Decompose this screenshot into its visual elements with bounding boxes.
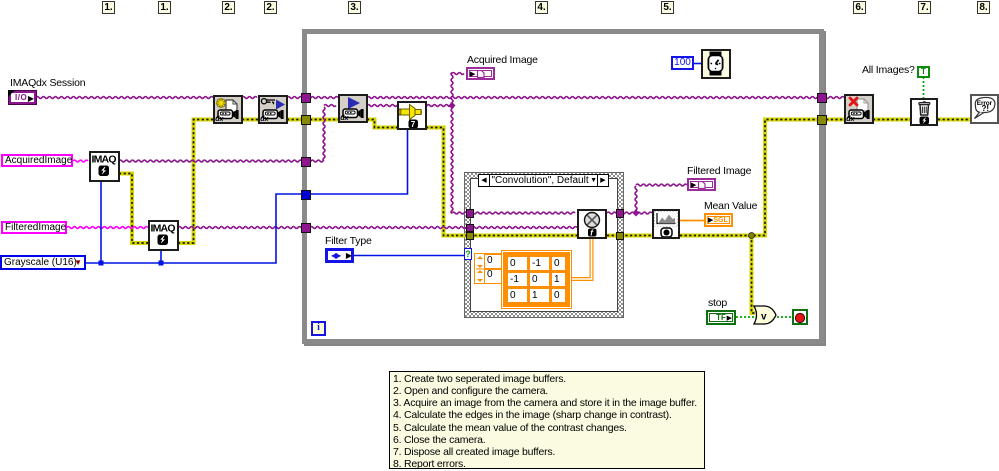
node: Wait (ms) timer bbox=[701, 49, 731, 79]
tunnel: error wire out of case bbox=[616, 232, 625, 241]
control: Filter Type enum bbox=[325, 248, 354, 263]
ring constant: Grayscale (U16) image type bbox=[0, 255, 86, 270]
step label 4. bbox=[535, 1, 548, 14]
label: stop bbox=[708, 297, 727, 309]
node: IMAQ Create (FilteredImage buffer) bbox=[148, 220, 179, 251]
wire: error wire: Configure Grab into loop to Grab bbox=[287, 118, 338, 122]
svg-text:dx: dx bbox=[846, 116, 855, 122]
while loop structure bbox=[302, 29, 824, 344]
tunnel: session wire into while loop bbox=[301, 93, 311, 103]
wire: kernel array to Convolute (orange double) bbox=[569, 239, 592, 280]
wire: error wire: mean node up and out of loop to Close Camera bbox=[680, 120, 844, 236]
tunnel: image out of case bbox=[616, 209, 625, 218]
junction: image wire branch at grab output bbox=[448, 102, 455, 109]
terminal: loop condition (stop sign) bbox=[792, 309, 808, 325]
kernel array constant 3x3 (0,-1,0 / -1,0,1 / 0,1,0) bbox=[503, 252, 570, 307]
label: Filtered Image bbox=[687, 165, 751, 177]
kernel array index scroller bbox=[474, 253, 502, 284]
label: Acquired Image bbox=[467, 54, 538, 66]
junction: error wire branch to Or gate bbox=[749, 233, 755, 239]
wire: boolean wire: Or gate to loop condition terminal bbox=[777, 316, 792, 318]
wire: image wire: junction into case to Convolute bbox=[452, 212, 575, 214]
label: Filter Type bbox=[325, 235, 372, 247]
tunnel: acquired image into case bbox=[466, 209, 475, 218]
wire: boolean wire: stop button to Or gate bbox=[736, 316, 755, 318]
wire: image wire: into Filtered Image indicator bbox=[636, 184, 687, 186]
control: stop button (TF boolean) bbox=[706, 310, 736, 325]
tunnel: FilteredImage wire into while loop bbox=[301, 223, 311, 233]
tunnel: U16 type wire into while loop bbox=[301, 190, 311, 200]
step label 8. bbox=[977, 1, 990, 14]
node: IMAQdx Configure Grab bbox=[258, 95, 288, 124]
step label 7. bbox=[918, 1, 931, 14]
wire: image wire: Grab image-out to junction bbox=[367, 105, 451, 107]
svg-text:IMAQ: IMAQ bbox=[151, 223, 176, 235]
wire: image wire: IMAQ Create 2 out into case to Convolute bbox=[178, 227, 577, 229]
wire: type wire: Grayscale (U16) to loop and EdgeDetection bbox=[86, 130, 408, 263]
constant: All Images? = True bbox=[917, 66, 930, 78]
step label 1. bbox=[102, 1, 115, 14]
step label 1. bbox=[158, 1, 171, 14]
node: IMAQ Create (AcquiredImage buffer) bbox=[89, 151, 120, 182]
wire: error wire: Dispose to Simple Error Handler bbox=[938, 118, 970, 122]
wire: error wire: EdgeDetection down into case to Convolute bbox=[426, 128, 577, 236]
node: IMAQ Convolute (apply kernel) bbox=[577, 209, 607, 239]
wire: boolean wire: All Images? constant to Dispose bbox=[923, 77, 925, 98]
wire: numeric wire: 100 to Wait (ms) bbox=[694, 63, 701, 65]
tunnel: filtered image into case bbox=[466, 224, 475, 233]
wire: error wire: IMAQ Create 1 to IMAQ Create 2 bbox=[119, 174, 149, 244]
step label 6. bbox=[853, 1, 866, 14]
label: IMAQdx Session bbox=[10, 77, 85, 89]
wire: image wire: riser up to Grab image-in bbox=[323, 107, 325, 161]
step label 2. bbox=[264, 1, 277, 14]
node: IMAQdx Close Camera bbox=[844, 94, 874, 124]
comment note: algorithm steps bbox=[389, 371, 705, 469]
wire: session wire: IMAQdx Session terminal to Open Camera bbox=[36, 97, 213, 99]
label: Mean Value bbox=[704, 200, 757, 212]
tunnel: error wire into case bbox=[466, 232, 475, 241]
wire: error wire: IMAQ Create 2 up to IMAQdx Open Camera bbox=[178, 120, 213, 244]
wire: error wire: branch down to Or gate bbox=[752, 236, 756, 314]
string constant: FilteredImage bbox=[1, 221, 67, 234]
tunnel: error wire into while loop bbox=[301, 115, 311, 125]
svg-text:v: v bbox=[761, 312, 767, 323]
wire: mean value SGL to Mean Value indicator bbox=[680, 220, 704, 222]
node: IMAQ mean value of contrast bbox=[652, 209, 680, 239]
control terminal: IMAQdx Session bbox=[8, 90, 37, 105]
svg-text:dx: dx bbox=[340, 115, 349, 121]
svg-text:dx: dx bbox=[215, 116, 224, 122]
indicator: Mean Value (SGL) bbox=[704, 213, 733, 227]
case selector "?" tunnel bbox=[464, 248, 472, 260]
tunnel: error wire out of while loop bbox=[817, 115, 827, 125]
junction: U16 type wire to IMAQ Create 2 bbox=[159, 261, 164, 266]
svg-text:?!: ?! bbox=[982, 104, 990, 113]
svg-text:IMAQ: IMAQ bbox=[92, 154, 117, 166]
wire: enum wire: Filter Type to case selector bbox=[354, 255, 464, 257]
numeric constant: 100 (ms wait) bbox=[671, 56, 694, 70]
label: All Images? bbox=[862, 64, 915, 76]
step label 2. bbox=[222, 1, 235, 14]
case structure ("Convolution", Default frame) bbox=[464, 172, 624, 318]
step label 5. bbox=[661, 1, 674, 14]
wire: image wire: into Grab image-in bbox=[324, 105, 336, 107]
wire: session wire: Open Camera to Configure Grab bbox=[242, 97, 257, 99]
svg-text:dx: dx bbox=[260, 116, 269, 122]
tunnel: AcquiredImage wire into while loop bbox=[301, 157, 311, 167]
junction: image wire branch to Filtered Image indicator bbox=[632, 209, 639, 216]
wire: error wire: Open Camera to Configure Grab bbox=[242, 118, 258, 122]
wire: error wire: Grab to EdgeDetection bbox=[367, 120, 397, 128]
svg-text:7: 7 bbox=[411, 120, 416, 128]
node: Simple Error Handler bbox=[970, 94, 999, 124]
junction: U16 type wire to IMAQ Create 1 bbox=[99, 261, 104, 266]
wire: string wire: AcquiredImage constant to IMAQ Create 1 bbox=[73, 160, 88, 162]
node: IMAQdx Grab (acquire image) bbox=[338, 94, 368, 123]
wire: type wire: branch up to IMAQ Create 2 bbox=[160, 250, 162, 263]
wire: error wire: case out to mean node bbox=[607, 234, 652, 238]
node: IMAQ EdgeDetection filter bbox=[397, 101, 427, 130]
node: IMAQ Dispose (all buffers) bbox=[910, 98, 938, 126]
wire: image wire: junction riser (indicator/case) bbox=[451, 73, 453, 214]
indicator: Acquired Image bbox=[466, 67, 495, 80]
wire: image wire: branch riser to Filtered Image indicator bbox=[635, 186, 637, 213]
wire: string wire: FilteredImage constant to IMAQ Create 2 bbox=[67, 227, 148, 229]
wire: type wire: branch up to IMAQ Create 1 bbox=[100, 182, 102, 263]
wire: image wire: into Acquired Image indicator bbox=[452, 73, 464, 75]
node: IMAQdx Open Camera bbox=[213, 95, 243, 124]
case selector label: "Convolution", Default bbox=[478, 174, 609, 187]
tunnel: session wire out of while loop bbox=[817, 93, 827, 103]
wire: session wire: Grab out of loop to Close Camera bbox=[367, 97, 844, 99]
step label 3. bbox=[348, 1, 361, 14]
string constant: AcquiredImage bbox=[1, 154, 73, 167]
wire: session wire: Configure Grab into loop to Grab bbox=[287, 97, 338, 99]
wire: error wire: Close Camera to Dispose bbox=[873, 118, 910, 122]
indicator: Filtered Image bbox=[687, 178, 716, 191]
wire: image wire: IMAQ Create 1 out to riser bbox=[119, 160, 323, 162]
node: Or gate (stop OR error) bbox=[752, 305, 782, 327]
wire: image wire: Convolute out of case to mean node bbox=[607, 212, 652, 214]
terminal: loop iteration i bbox=[311, 321, 326, 336]
